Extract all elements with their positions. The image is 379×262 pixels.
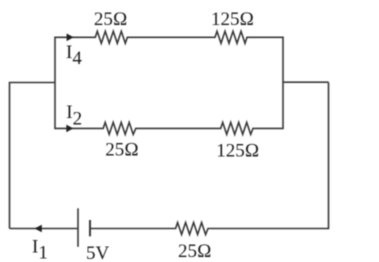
svg-text:125Ω: 125Ω (211, 9, 254, 30)
svg-text:25Ω: 25Ω (178, 241, 212, 262)
svg-text:25Ω: 25Ω (94, 9, 128, 30)
svg-text:5V: 5V (86, 243, 110, 262)
svg-text:125Ω: 125Ω (216, 141, 259, 162)
svg-text:25Ω: 25Ω (105, 140, 139, 161)
